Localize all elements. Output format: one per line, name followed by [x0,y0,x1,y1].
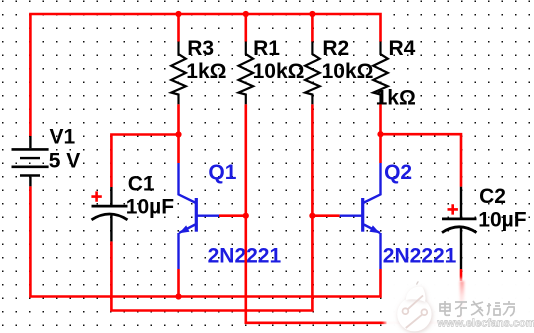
svg-text:1kΩ: 1kΩ [186,60,226,83]
watermark text dianzifashaoyou [440,301,515,316]
svg-text:10kΩ: 10kΩ [253,60,305,83]
junction top rail at R3 [175,11,181,17]
svg-text:R2: R2 [322,37,349,60]
capacitor C1 [91,187,127,241]
wire top rail [30,14,380,136]
resistor R3 [171,42,186,105]
label C1 [126,173,174,219]
wire rail to R2 top [311,14,314,42]
label R4 [376,37,416,109]
svg-text:C1: C1 [128,173,155,196]
transistor Q1 [179,163,220,269]
transistor Q2 [340,163,381,269]
watermark logo [397,281,432,333]
resistor R4 [373,42,388,105]
junction C2 tap [377,131,383,137]
label R1 [253,37,305,83]
wire ground rail [30,186,380,296]
wire rail to R3 top [177,14,180,42]
wire C2 top tap [381,134,462,187]
capacitor C2 [442,187,477,269]
wire Q2 base to R2 node [312,214,339,217]
svg-text:R4: R4 [389,37,416,60]
svg-text:www.elecfans.com: www.elecfans.com [437,318,534,330]
svg-text:R3: R3 [187,37,214,60]
junction Q2 base [309,213,315,219]
junction Q1 emitter ground [175,293,181,299]
label V1 [49,126,81,173]
junction top rail at R2 [309,11,315,17]
watermark panel [384,279,534,333]
svg-text:2N2221: 2N2221 [383,245,457,268]
wire rail to R1 top [245,14,248,42]
label R2 [322,37,374,83]
wire R1 bottom through Q1 base down to C2 bottom [246,104,461,323]
label Q2 [383,161,457,268]
label Q1 [208,161,282,268]
svg-text:C2: C2 [479,185,506,208]
battery V1 [12,136,49,186]
wire R4 bottom to Q2 collector [379,104,382,163]
label C2 [478,185,526,232]
svg-text:Q1: Q1 [208,161,236,184]
svg-text:10µF: 10µF [478,209,526,232]
svg-text:Q2: Q2 [384,161,412,184]
svg-text:V1: V1 [50,126,76,149]
junction Q1 base [243,213,249,219]
wire R2 bottom through Q2 base down to C1 bottom [111,104,312,310]
junction top rail at R1 [243,11,249,17]
wire Q1 emitter to ground [177,269,180,297]
wire Q1 base to R1 node [219,214,246,217]
wire R3 bottom to Q1 collector [177,104,180,163]
junction C1 tap [175,131,181,137]
svg-text:5 V: 5 V [49,150,81,173]
resistor R2 [305,42,320,105]
resistor R1 [239,42,254,105]
label R3 [186,37,226,83]
svg-text:R1: R1 [253,37,280,60]
svg-text:10µF: 10µF [126,196,174,219]
wire C1 top tap [111,135,178,188]
svg-text:10kΩ: 10kΩ [322,60,374,83]
